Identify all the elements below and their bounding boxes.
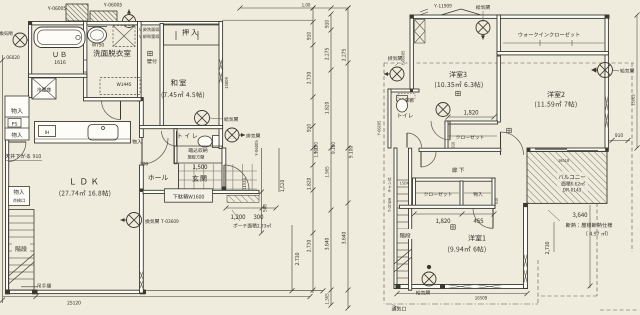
dashed 1F porch outline vertical [596,203,598,296]
dimension line x331 [330,14,332,305]
label クローゼット2 [424,192,452,196]
washroom south wall [84,98,142,101]
stairs 1F break lines [9,254,35,276]
label Y-06005 rotated on 1F outline [378,121,381,135]
door arc 洋室1 [473,208,493,228]
stairs 2F break lines [394,249,412,264]
dim line 1820 455 [414,213,494,215]
dash-dot 1F outline bottom [386,303,538,305]
washroom sink [88,27,107,43]
1F left wall lower [6,140,9,292]
stairs 2F east wall [409,148,412,290]
left dimension line [2,55,4,303]
label Y-06005 rotated east [255,141,258,156]
vent 排気閘 1F [225,128,239,142]
label LDK area [59,190,110,197]
vent 換気閘 LDK [127,213,142,228]
refrigerator box [32,78,56,99]
vent 排気閘 2F left [390,67,404,81]
hatched eave block 2 [90,11,117,23]
UB south wall [29,74,87,77]
dim line right of roof area [589,205,591,288]
label 1509 rotated [225,77,228,88]
porch vertical dim 1520 [280,180,285,192]
corridor north wall [419,148,501,151]
mark fire alarm 洋室1 [451,225,456,230]
hall storage 物入 300 [132,139,142,144]
toilet fixture 1F [213,136,220,148]
label 上部棚 [400,98,413,102]
label 1820 above closet1 [464,110,478,116]
label Y-06005 rotated 2F left [402,51,405,65]
label 洋室2 [547,91,564,97]
dim 2730 rotated right [553,222,555,252]
bathtub [34,27,85,48]
dimension line x313 [312,8,314,293]
vent 給気閘 east [598,63,613,78]
label Y-06005 top mid [104,3,122,7]
label 洗面脱衣室 [93,50,130,57]
UB door marks [84,59,87,61]
2F left wall lower stairs [394,148,397,289]
PS box and label [8,119,21,128]
vent fan top wall [123,15,136,28]
toilet room west wall [174,129,177,164]
下駄箱 shoe cabinet [165,189,213,202]
porch step hatch [227,195,259,202]
labels 洗面収納 和室収納 [139,27,163,31]
押入 closet box [160,24,163,127]
toilet fixture 2F [397,96,408,102]
クローゼット2 物入 box [413,178,496,181]
wall mark 壁付 [148,51,153,56]
door arc toilet 2F [407,133,422,148]
dim 910 balcony east [608,140,630,142]
dimension line x348 [347,8,349,308]
toilet 2F walls [388,89,419,92]
UB east wall [84,22,87,98]
stairs 1F shaft [9,210,35,291]
porch vertical dim 500 [261,148,263,233]
kitchen sink [88,125,118,141]
label 洋室1 [468,235,485,241]
洋室1 north wall [400,205,496,208]
2F east wall windows [605,95,608,112]
label 階段 1F [12,243,30,252]
label トイレ 2F [399,113,413,117]
porch bottom tick line [146,290,323,292]
label 押入 [182,29,198,35]
entrance south wall [143,190,259,193]
dim 16509 bottom [397,293,527,295]
1F east wall of LDK lower [140,165,144,293]
label 廊下 [452,167,464,172]
label 玄関 [192,175,206,182]
label 物入 bay bottom [12,132,23,137]
vent 給気閘 top [476,21,490,35]
WIC south wall [497,52,608,55]
1F bottom wall [6,290,146,293]
label クローゼット1 [456,135,484,139]
bottom dimension line 25120 [3,296,310,298]
window X on 2F left wall [415,20,426,44]
label 和室 [171,79,186,86]
balcony north wall sliding door [527,148,608,151]
label UB 1616 [53,52,65,57]
label 15003 rotated [632,95,635,106]
mark fire alarm 洋室2 [507,128,512,133]
window X on LDK east wall [140,271,144,280]
label ウォークインクローゼット [519,32,580,37]
label T-07409 rotated [388,178,392,193]
dashed 1F outline top [384,62,634,64]
label 物入 bay top [11,108,23,114]
2F left wall upper [410,15,413,89]
bottom wall posts [5,290,10,295]
washitsu south wall [140,126,223,129]
washitsu window east [219,58,223,71]
1F hall west wall upper [140,98,144,138]
クローゼット1 walls [445,121,498,124]
door arc 洋室3 [431,121,450,140]
washitsu east wall [219,22,223,149]
balcony hatched area [527,151,607,203]
2F bottom wall windows [446,285,475,289]
door arc washroom to hall [102,101,121,120]
door arc 洋室2 [501,132,524,155]
label Y-06005 top left [48,6,66,10]
1F top wall [29,22,222,25]
label 洋室2 area [535,101,577,108]
mark fire alarm 洋室3 [456,91,461,96]
label 階段 2F [398,229,413,239]
wall between 洋室3 and WIC/洋室2 [497,15,500,56]
horizontal tie line y20 [222,19,313,21]
dashed 1F porch outline short [538,295,597,297]
vent toilet top 2F [436,103,450,117]
label 通気口 [392,306,406,311]
label 洋室3 area [435,81,483,88]
balcony labels [557,172,588,192]
wall junction posts 2F [410,15,414,19]
物入 点検口 box [9,187,30,206]
door arc toilet 1F [162,131,177,146]
dashed 1F outline left [383,63,385,304]
2F bottom wall [394,285,528,289]
window X east lower [524,253,528,269]
dashed counter W1445 [100,78,140,95]
label 1500 [193,165,207,171]
bay door arc [6,142,26,162]
entrance door leaf and arc [224,165,249,190]
roof peak mark Y-11909 [441,9,461,15]
label 11923 rotated [243,178,246,189]
dashed 1F outline step vertical [537,260,539,304]
hatched eave block 1 [66,4,88,21]
2F top wall [410,15,609,18]
1F storage bay west wall [5,96,29,140]
entrance step edge line [178,164,180,191]
label 和室 area [162,91,204,98]
label 洋室1 area [448,246,486,253]
stairs 2F treads [397,179,409,181]
vent 給気閘 1F [195,111,210,126]
1F left wall upper [29,22,32,98]
washroom east wall [138,22,142,102]
label W750 [92,43,104,47]
porch vertical dim 2730 [291,225,293,290]
dashed cabinet box with X [113,26,135,47]
top dimension line [240,7,348,9]
2F east wall lower [524,203,528,288]
door arc hall to LDK [142,138,168,164]
IH cooktop [39,126,56,137]
WIC hanger pipe [503,42,604,44]
dim 3640 and insulation note [573,213,588,219]
vent 給気閘 stairs [422,272,436,286]
dashed marks bottom right [600,309,638,311]
label 洋室3 [449,71,466,77]
label 物入 2F [473,192,482,196]
label 15DN [400,182,409,185]
vent fan left wall with label [13,33,27,47]
right edge vertical line [636,15,638,148]
dashed 1F outline right [631,63,633,252]
label トイレ [179,133,197,138]
door arc corridor [421,151,436,167]
label LDK [71,178,98,184]
label 吊手摺 [37,283,50,287]
entrance east wall [222,148,226,192]
踏込収納 box [175,146,223,163]
玄関 tile grid [179,164,257,191]
hall label ホール [148,175,168,181]
kitchen counter [35,122,131,144]
wall junction posts 1F [29,22,33,26]
label 天井下がる 910 [5,154,41,159]
2F east wall upper [605,15,608,148]
porch dimension labels 1200 300 [226,207,276,209]
